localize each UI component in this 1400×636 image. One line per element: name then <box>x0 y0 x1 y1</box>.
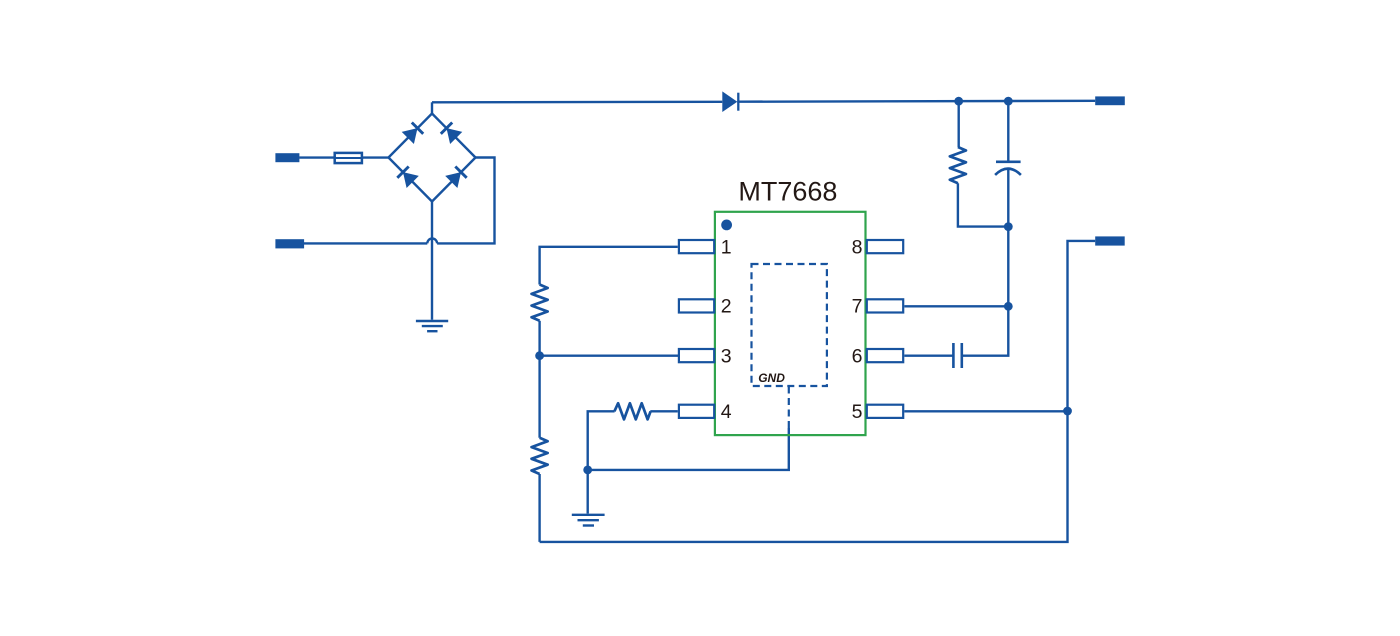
wire R3b to ground branch <box>588 411 615 470</box>
bridge edge lower-left <box>389 158 433 202</box>
junction node A (rail / R1a) <box>954 97 963 106</box>
wire pin 4 right segment <box>650 410 678 412</box>
dashed GND pad box <box>752 264 827 386</box>
terminal J2 (AC input bottom-left) <box>275 239 304 248</box>
resistor R2b (divider lower) <box>532 438 548 474</box>
wire R1a to node C <box>958 183 1008 226</box>
resistor R1b (divider upper) <box>532 285 548 321</box>
ground symbol (bridge center tap) <box>416 321 448 331</box>
junction node G (signal ground) <box>583 466 592 475</box>
svg-text:8: 8 <box>852 236 863 258</box>
junction node D (pin7 net) <box>1004 302 1013 311</box>
wire pin 1 to divider top <box>540 247 678 285</box>
wire J4 to node E to bottom rail <box>540 241 1096 542</box>
svg-text:GND: GND <box>758 371 785 385</box>
pin 7 box <box>867 299 903 312</box>
wire pin 6 to C2 <box>904 355 953 357</box>
diode D4 (lower-right arm, points to right node) <box>445 167 467 189</box>
pin 1 box <box>679 240 714 253</box>
wire bridge right wrap-around <box>437 158 494 244</box>
wire rail to R1a <box>958 101 960 147</box>
svg-text:6: 6 <box>852 345 863 367</box>
wire GND net (node G to IC GND pad) <box>588 428 789 470</box>
bridge rectifier BR1 <box>389 114 476 202</box>
wire fuse to bridge <box>362 156 389 158</box>
wire bridge top to positive rail <box>431 102 433 113</box>
pin 6 box <box>867 349 903 362</box>
wire C1 to node C <box>1007 170 1009 227</box>
fuse F1 <box>334 153 363 163</box>
wire rail to C1 <box>1007 101 1009 162</box>
resistor R3b (pin 4 series) <box>614 403 650 419</box>
junction node E (pin5 / output return) <box>1063 407 1072 416</box>
terminal J1 (AC input top-left) <box>275 153 299 162</box>
wire bridge bottom to ground (continuous through hop) <box>431 202 433 320</box>
pin 5 box <box>867 405 903 418</box>
pin 4 box <box>679 405 714 418</box>
junction node F (pin3 net) <box>535 351 544 360</box>
bridge edge lower-right <box>432 158 476 202</box>
pin 3 box <box>679 349 714 362</box>
capacitor C1 (polarized, top right) <box>995 162 1021 175</box>
wire node D down to C2 <box>962 306 1009 355</box>
wire R1b to node F <box>538 321 540 356</box>
wire J1 to fuse <box>299 156 333 158</box>
wire pin 7 <box>904 305 1008 307</box>
diode D3 (lower-left arm, points to left node) <box>397 167 419 189</box>
diode D1 (upper-left arm, points to top node) <box>402 123 424 145</box>
svg-text:7: 7 <box>852 296 863 318</box>
resistor R1a (top right) <box>950 147 966 183</box>
capacitor C2 (series, pin 6) <box>953 343 961 368</box>
wire top rail left segment <box>432 101 722 104</box>
ground symbol (signal ground) <box>572 515 605 526</box>
terminal J4 (output mid-right) <box>1095 236 1125 245</box>
wire node C to node D <box>1007 227 1009 307</box>
wire pin 5 <box>904 410 1067 412</box>
terminal J3 (DC output top-right) <box>1095 96 1125 105</box>
diode D5 (series rail diode) <box>722 91 738 112</box>
pin 1 indicator dot <box>721 220 732 231</box>
dashed GND stub into IC <box>788 386 790 428</box>
wire top rail right segment <box>737 100 1095 103</box>
wire R2b to bottom rail <box>538 474 540 542</box>
svg-text:4: 4 <box>721 401 732 423</box>
wire bottom run left of hop <box>304 242 427 244</box>
wire hop (horizontal jumps over vertical) <box>427 238 437 243</box>
svg-text:1: 1 <box>721 236 732 258</box>
pin 2 box <box>679 299 714 312</box>
wire node F to R2b <box>538 356 540 438</box>
svg-text:3: 3 <box>721 345 732 367</box>
junction node B (rail / C1) <box>1004 97 1013 106</box>
svg-text:5: 5 <box>852 401 863 423</box>
svg-text:MT7668: MT7668 <box>738 177 837 207</box>
junction node C <box>1004 222 1013 231</box>
diode D2 (upper-right arm, points to top node) <box>441 123 463 145</box>
pin 8 box <box>867 240 903 253</box>
bridge edge upper-right <box>432 114 476 158</box>
IC U1 MT7668 outline <box>715 212 866 435</box>
svg-text:2: 2 <box>721 296 732 318</box>
bridge edge upper-left <box>389 114 433 158</box>
wire pin 3 <box>540 355 679 357</box>
wire node G to ground symbol <box>587 470 589 514</box>
